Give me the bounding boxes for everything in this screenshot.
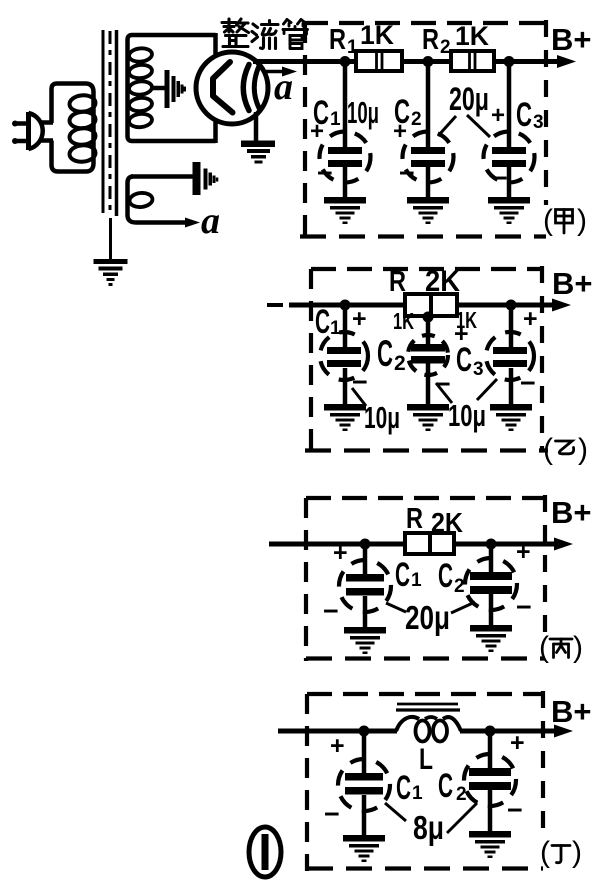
svg-text:B+: B+: [551, 22, 592, 57]
svg-text:R: R: [422, 24, 439, 56]
svg-text:): ): [578, 433, 588, 466]
svg-text:−: −: [324, 799, 340, 829]
svg-text:+: +: [523, 305, 538, 333]
svg-text:2: 2: [440, 37, 451, 58]
svg-text:C: C: [395, 556, 410, 594]
svg-text:2: 2: [411, 109, 422, 130]
svg-text:L: L: [419, 743, 433, 776]
svg-text:R: R: [329, 24, 346, 56]
svg-text:8μ: 8μ: [413, 809, 444, 846]
svg-text:−: −: [323, 596, 339, 626]
svg-text:1: 1: [412, 783, 423, 804]
svg-text:(: (: [543, 204, 553, 237]
svg-text:1K: 1K: [393, 308, 414, 334]
svg-text:(: (: [543, 433, 553, 466]
svg-text:C: C: [315, 303, 330, 341]
svg-text:10μ: 10μ: [364, 400, 400, 435]
svg-text:C: C: [438, 767, 453, 805]
svg-text:+: +: [333, 539, 348, 567]
svg-text:R: R: [389, 266, 406, 298]
svg-text:): ): [572, 836, 582, 869]
svg-text:3: 3: [533, 112, 544, 133]
svg-text:1: 1: [347, 37, 358, 58]
svg-text:2: 2: [456, 784, 467, 805]
svg-text:C: C: [516, 96, 532, 134]
svg-text:2K: 2K: [425, 265, 460, 298]
svg-text:−: −: [492, 163, 508, 193]
svg-text:(: (: [540, 836, 550, 869]
svg-text:20μ: 20μ: [405, 599, 450, 636]
svg-text:R: R: [406, 503, 423, 535]
svg-text:B+: B+: [551, 495, 592, 530]
svg-text:2: 2: [394, 352, 406, 375]
svg-text:B+: B+: [552, 266, 593, 301]
svg-text:+: +: [352, 305, 367, 333]
svg-text:−: −: [516, 592, 532, 622]
svg-text:10μ: 10μ: [347, 95, 379, 130]
svg-text:1: 1: [411, 570, 422, 591]
svg-text:C: C: [313, 94, 329, 132]
svg-text:+: +: [510, 729, 525, 757]
svg-text:+: +: [516, 538, 531, 566]
svg-text:a: a: [201, 200, 220, 242]
svg-text:2: 2: [454, 576, 465, 597]
svg-text:10μ: 10μ: [448, 398, 486, 433]
svg-text:): ): [577, 204, 587, 237]
svg-text:−: −: [507, 795, 523, 825]
svg-text:C: C: [438, 557, 453, 595]
svg-text:1: 1: [330, 109, 341, 130]
svg-text:+: +: [330, 732, 345, 760]
svg-text:C: C: [456, 341, 472, 379]
svg-text:B+: B+: [551, 694, 592, 729]
svg-text:−: −: [520, 368, 536, 398]
svg-text:−: −: [317, 158, 333, 188]
svg-text:−: −: [399, 158, 415, 188]
svg-text:): ): [573, 631, 583, 664]
svg-text:20μ: 20μ: [449, 81, 489, 117]
svg-text:1K: 1K: [360, 20, 394, 50]
svg-text:3: 3: [473, 359, 484, 380]
svg-text:(: (: [539, 631, 549, 664]
svg-text:+: +: [491, 102, 505, 129]
svg-text:C: C: [394, 93, 410, 131]
svg-text:1: 1: [330, 318, 341, 339]
svg-text:a: a: [274, 66, 293, 108]
svg-text:C: C: [396, 769, 411, 807]
svg-text:1K: 1K: [455, 21, 489, 51]
svg-text:C: C: [377, 333, 393, 374]
svg-text:2K: 2K: [431, 507, 463, 538]
